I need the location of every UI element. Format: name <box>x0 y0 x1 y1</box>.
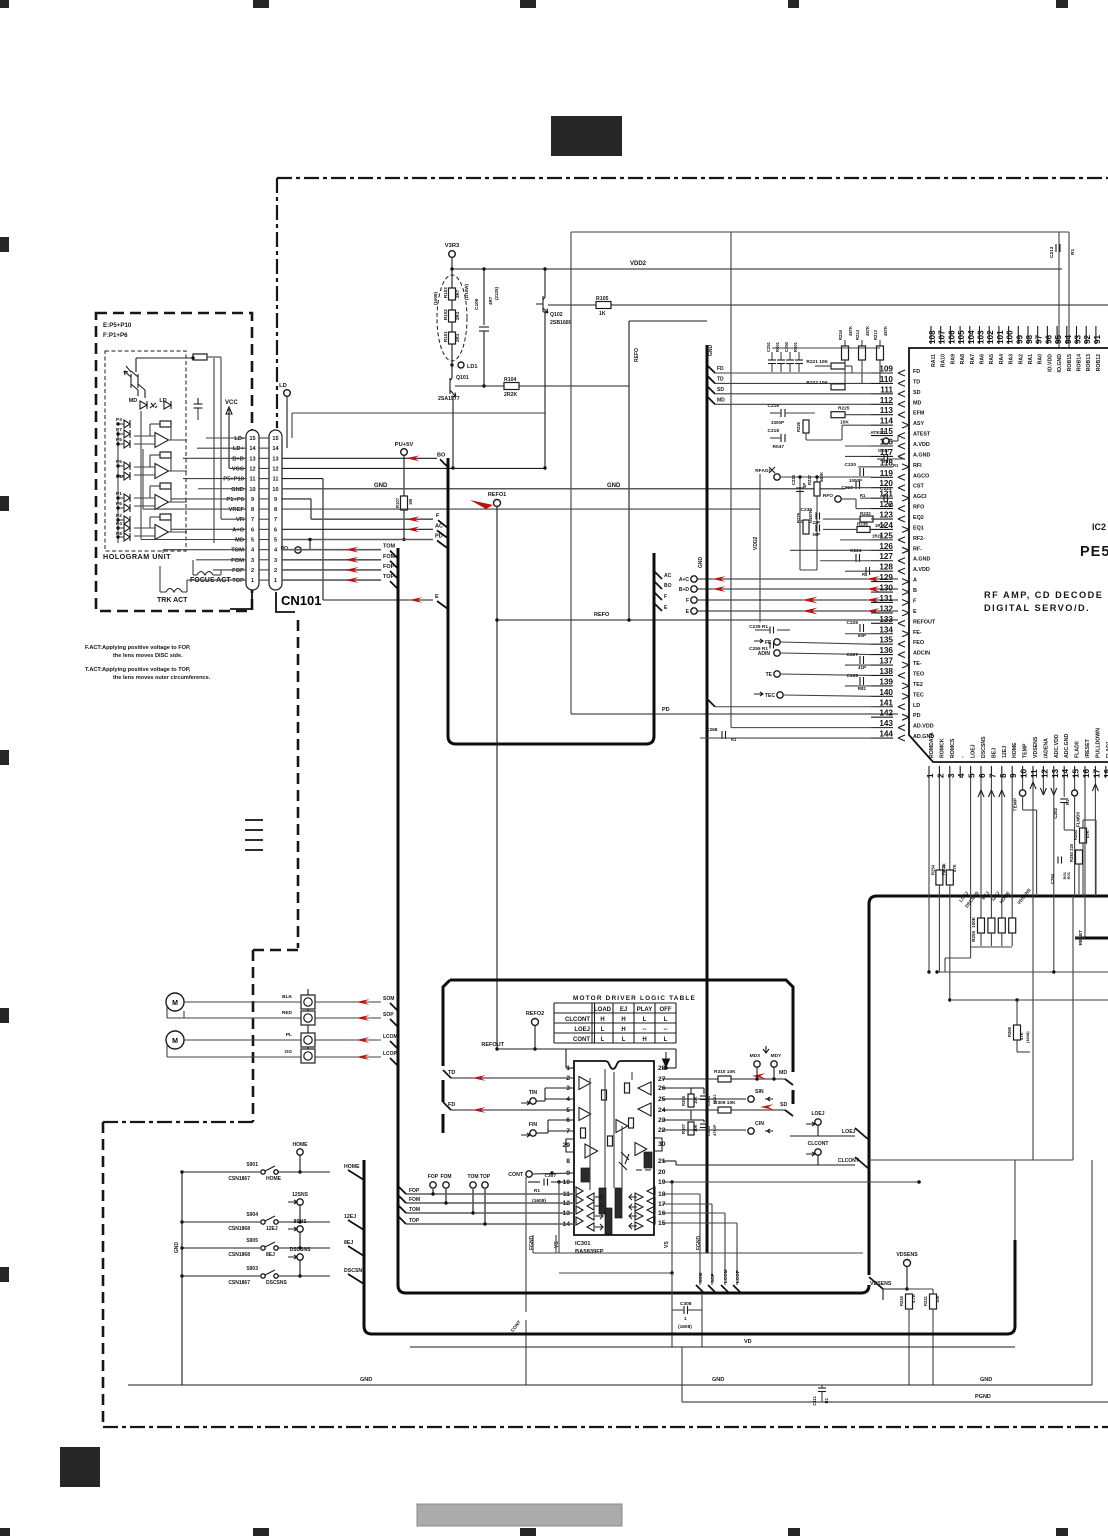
svg-text:R202: R202 <box>941 864 946 875</box>
svg-text:FOM: FOM <box>409 1197 420 1203</box>
svg-text:A.GND: A.GND <box>913 557 930 563</box>
svg-text:RA6: RA6 <box>980 354 986 364</box>
svg-text:R1: R1 <box>824 1397 829 1403</box>
svg-text:(1/10W): (1/10W) <box>464 283 469 300</box>
svg-text:P6: P6 <box>116 501 122 507</box>
svg-text:2R4: 2R4 <box>455 311 460 320</box>
svg-text:FGND: FGND <box>696 1235 702 1250</box>
svg-text:R240: R240 <box>899 1295 904 1306</box>
svg-text:4R7: 4R7 <box>488 296 493 305</box>
svg-text:CLCONT: CLCONT <box>838 1158 859 1164</box>
svg-text:RA3: RA3 <box>1009 354 1015 364</box>
svg-text:3: 3 <box>251 558 254 564</box>
svg-text:RA0: RA0 <box>1038 354 1044 364</box>
svg-text:H: H <box>642 1037 646 1043</box>
svg-text:2SA1577: 2SA1577 <box>438 396 460 402</box>
svg-text:TE-: TE- <box>913 661 922 667</box>
svg-text:113: 113 <box>880 406 894 415</box>
svg-text:7: 7 <box>251 517 254 523</box>
svg-text:R255: R255 <box>971 931 976 942</box>
svg-text:12: 12 <box>1040 768 1049 778</box>
svg-text:SD: SD <box>717 387 724 393</box>
svg-text:C225: C225 <box>791 474 796 485</box>
svg-text:-: - <box>960 756 966 758</box>
svg-text:130: 130 <box>879 584 893 593</box>
svg-text:BA5839FP: BA5839FP <box>575 1249 604 1255</box>
svg-text:RF2-: RF2- <box>913 536 925 542</box>
svg-text:C213: C213 <box>1049 246 1055 258</box>
svg-text:R305: R305 <box>681 1095 686 1106</box>
svg-text:47K: 47K <box>1085 830 1090 838</box>
svg-text:142: 142 <box>879 709 893 718</box>
svg-text:MD: MD <box>913 400 921 406</box>
svg-text:1K: 1K <box>599 311 606 317</box>
svg-text:139: 139 <box>879 677 893 686</box>
svg-text:1: 1 <box>251 578 254 584</box>
svg-text:B: B <box>913 588 917 594</box>
svg-text:R226: R226 <box>796 421 801 432</box>
svg-text:13: 13 <box>249 456 255 462</box>
svg-text:PD: PD <box>913 713 921 719</box>
svg-text:2: 2 <box>251 568 254 574</box>
svg-text:DSCSNS: DSCSNS <box>981 736 987 758</box>
svg-text:P10: P10 <box>116 474 125 480</box>
svg-text:SIN: SIN <box>755 1089 764 1095</box>
svg-text:111: 111 <box>880 385 893 394</box>
svg-text:ADIN: ADIN <box>758 651 771 657</box>
svg-text:SOP: SOP <box>383 1012 394 1018</box>
svg-text:VDSENS: VDSENS <box>896 1252 918 1258</box>
svg-text:P5: P5 <box>116 437 122 443</box>
svg-text:MDY: MDY <box>771 1053 782 1059</box>
svg-text:103: 103 <box>977 330 986 344</box>
svg-text:AC: AC <box>435 523 443 529</box>
svg-text:A: A <box>913 578 917 584</box>
svg-text:R102: R102 <box>443 309 448 320</box>
svg-text:C250: C250 <box>784 341 789 352</box>
svg-text:C268: C268 <box>706 727 718 733</box>
svg-text:4.7K: 4.7K <box>911 1294 916 1303</box>
svg-text:ATEST: ATEST <box>913 432 931 438</box>
svg-text:A+C: A+C <box>232 527 245 533</box>
svg-text:12: 12 <box>272 466 278 472</box>
svg-text:R284 220: R284 220 <box>1069 843 1074 862</box>
svg-text:R254: R254 <box>930 864 935 875</box>
svg-text:IC2: IC2 <box>1092 522 1106 532</box>
svg-text:22P: 22P <box>813 520 821 525</box>
svg-text:95: 95 <box>1054 334 1063 344</box>
svg-text:105: 105 <box>957 330 966 344</box>
svg-text:RA7: RA7 <box>970 354 976 364</box>
svg-text:R001: R001 <box>793 341 798 352</box>
svg-text:487K: 487K <box>808 510 813 520</box>
svg-text:PD: PD <box>435 534 443 540</box>
svg-text:5: 5 <box>274 538 277 544</box>
svg-text:FE: FE <box>765 640 772 646</box>
svg-text:C304: C304 <box>706 1095 711 1106</box>
svg-text:C308: C308 <box>680 1301 692 1307</box>
svg-text:92: 92 <box>1083 334 1092 344</box>
svg-text:LD: LD <box>159 398 166 404</box>
svg-text:(2125): (2125) <box>494 286 499 300</box>
svg-text:OG: OG <box>285 1049 293 1055</box>
svg-text:4: 4 <box>957 773 966 778</box>
svg-text:VDD2: VDD2 <box>630 261 647 267</box>
svg-text:2: 2 <box>936 773 945 778</box>
svg-text:R103: R103 <box>443 287 448 298</box>
svg-text:GND: GND <box>708 345 714 357</box>
svg-text:LD: LD <box>913 703 920 709</box>
svg-text:93: 93 <box>1074 334 1083 344</box>
svg-text:FOP: FOP <box>428 1174 439 1180</box>
svg-text:C228: C228 <box>847 673 859 679</box>
svg-text:REFO2: REFO2 <box>526 1011 544 1017</box>
svg-text:RFI: RFI <box>913 463 922 469</box>
svg-text:60P: 60P <box>858 633 866 638</box>
svg-text:487K: 487K <box>883 326 888 336</box>
svg-text:8SNS: 8SNS <box>293 1219 307 1225</box>
svg-text:12: 12 <box>249 466 255 472</box>
svg-text:118: 118 <box>880 458 894 467</box>
svg-text:TRK ACT: TRK ACT <box>157 597 188 604</box>
svg-text:134: 134 <box>879 625 893 634</box>
svg-text:V3R3: V3R3 <box>445 243 460 249</box>
svg-text:R265: R265 <box>1007 1026 1012 1037</box>
svg-text:2: 2 <box>274 568 277 574</box>
svg-text:TOP: TOP <box>232 578 244 584</box>
svg-text:H: H <box>621 1027 625 1033</box>
svg-text:ADC.VDD: ADC.VDD <box>1054 734 1060 758</box>
svg-text:104: 104 <box>967 330 976 344</box>
svg-text:P1: P1 <box>116 491 122 497</box>
svg-text:LCOM: LCOM <box>383 1034 398 1040</box>
svg-text:487K: 487K <box>865 326 870 336</box>
svg-text:123: 123 <box>879 511 893 520</box>
svg-text:11: 11 <box>1030 769 1039 778</box>
svg-text:HOME: HOME <box>266 1176 282 1182</box>
svg-text:5: 5 <box>251 538 254 544</box>
svg-text:CSN1867: CSN1867 <box>228 1280 250 1286</box>
svg-text:PU+5V: PU+5V <box>395 442 414 448</box>
svg-text:the lens moves outer circumfer: the lens moves outer circumference. <box>113 675 211 681</box>
svg-text:109: 109 <box>879 365 893 374</box>
svg-text:R214: R214 <box>855 329 860 340</box>
svg-text:C284: C284 <box>1050 873 1055 884</box>
svg-text:128: 128 <box>879 563 893 572</box>
svg-text:(1608): (1608) <box>1025 1031 1030 1043</box>
svg-text:R81: R81 <box>858 686 867 691</box>
svg-text:1: 1 <box>926 773 935 778</box>
svg-text:9: 9 <box>251 497 254 503</box>
svg-text:CST: CST <box>913 484 924 490</box>
svg-text:R1: R1 <box>888 502 894 507</box>
svg-text:FE-: FE- <box>913 630 922 636</box>
svg-text:MD: MD <box>779 1070 787 1076</box>
svg-text:REFOUT: REFOUT <box>913 619 936 625</box>
svg-text:6: 6 <box>274 527 277 533</box>
svg-text:L: L <box>601 1037 605 1043</box>
svg-text:AC: AC <box>664 573 672 579</box>
svg-text:FD: FD <box>717 366 724 372</box>
svg-text:CLCONT: CLCONT <box>565 1017 590 1023</box>
svg-text:RA4: RA4 <box>999 354 1005 364</box>
svg-text:(1608): (1608) <box>678 1324 692 1330</box>
svg-text:R221 10K: R221 10K <box>806 359 828 365</box>
svg-text:FLMD0: FLMD0 <box>1076 812 1081 827</box>
svg-text:AGCO: AGCO <box>913 473 929 479</box>
svg-text:IC301: IC301 <box>575 1241 591 1247</box>
svg-text:10: 10 <box>1020 768 1029 778</box>
svg-text:12EJ: 12EJ <box>266 1226 278 1232</box>
svg-text:LCOP: LCOP <box>383 1051 398 1057</box>
svg-text:TEC: TEC <box>913 692 924 698</box>
svg-text:VD: VD <box>744 1339 752 1345</box>
svg-text:108: 108 <box>928 330 937 344</box>
svg-text:DIGITAL SERVO/D.: DIGITAL SERVO/D. <box>984 603 1090 613</box>
svg-text:DSCSNS: DSCSNS <box>266 1280 288 1286</box>
svg-text:GND: GND <box>607 483 621 489</box>
svg-text:101: 101 <box>996 330 1005 344</box>
svg-text:11: 11 <box>250 477 256 483</box>
svg-text:R1: R1 <box>731 737 737 742</box>
svg-text:138: 138 <box>879 667 893 676</box>
svg-text:FGND: FGND <box>529 1235 535 1250</box>
svg-text:127: 127 <box>879 552 893 561</box>
svg-text:R001: R001 <box>775 341 780 352</box>
svg-text:BO: BO <box>437 452 446 458</box>
svg-text:R310 10K: R310 10K <box>714 1069 736 1075</box>
svg-text:8: 8 <box>251 507 254 513</box>
svg-text:A.VDD: A.VDD <box>913 567 930 573</box>
svg-text:41P: 41P <box>858 665 866 670</box>
svg-text:6: 6 <box>251 527 254 533</box>
svg-text:C216: C216 <box>768 403 780 409</box>
svg-text:R1: R1 <box>860 493 866 498</box>
svg-text:FOM: FOM <box>440 1174 451 1180</box>
svg-text:131: 131 <box>879 594 893 603</box>
svg-text:16: 16 <box>1082 768 1091 778</box>
svg-text:91: 91 <box>1093 334 1102 344</box>
svg-text:TE: TE <box>766 672 773 678</box>
svg-text:BO: BO <box>664 583 672 589</box>
svg-text:EQ2: EQ2 <box>913 515 924 521</box>
svg-text:C220: C220 <box>845 462 857 468</box>
svg-text:141: 141 <box>879 698 893 707</box>
svg-text:C106: C106 <box>474 298 480 310</box>
svg-text:9: 9 <box>274 497 277 503</box>
svg-text:ROB14: ROB14 <box>1077 354 1083 371</box>
svg-text:560K: 560K <box>819 472 824 482</box>
svg-text:BLK: BLK <box>282 994 292 1000</box>
svg-text:13: 13 <box>1051 768 1060 778</box>
svg-text:RF AMP, CD DECODE: RF AMP, CD DECODE <box>984 590 1103 600</box>
svg-text:13: 13 <box>272 456 278 462</box>
svg-text:P7: P7 <box>116 427 122 433</box>
svg-text:R105: R105 <box>596 296 609 302</box>
svg-text:PGND: PGND <box>975 1394 991 1400</box>
svg-text:20: 20 <box>658 1169 666 1176</box>
svg-text:RA8: RA8 <box>960 354 966 364</box>
svg-text:VCC: VCC <box>225 400 238 406</box>
svg-text:H: H <box>621 1017 625 1023</box>
svg-text:L: L <box>664 1037 668 1043</box>
svg-text:56P: 56P <box>813 532 821 537</box>
svg-text:HOME: HOME <box>344 1164 360 1170</box>
svg-text:14: 14 <box>1061 768 1070 778</box>
svg-text:FOM: FOM <box>383 554 396 560</box>
svg-text:S904: S904 <box>246 1212 258 1218</box>
svg-text:102: 102 <box>986 330 995 344</box>
svg-text:TEO: TEO <box>913 671 924 677</box>
svg-text:10K: 10K <box>935 1295 940 1303</box>
svg-text:LOAD: LOAD <box>594 1007 612 1013</box>
svg-text:ADC.GND: ADC.GND <box>1064 734 1070 758</box>
svg-text:--: -- <box>643 1027 647 1033</box>
svg-text:8EJ: 8EJ <box>266 1252 275 1258</box>
svg-text:MD: MD <box>717 397 725 403</box>
svg-text:LCOP: LCOP <box>735 1270 740 1283</box>
svg-text:AGCI: AGCI <box>913 494 927 500</box>
svg-text:S905: S905 <box>246 1238 258 1244</box>
svg-text:--: -- <box>664 1027 668 1033</box>
svg-text:P1+P6: P1+P6 <box>226 497 244 503</box>
svg-text:110: 110 <box>880 375 894 384</box>
svg-text:RF-: RF- <box>913 546 922 552</box>
svg-text:REFO: REFO <box>594 612 610 618</box>
svg-text:P5: P5 <box>116 459 122 465</box>
svg-text:PE55: PE55 <box>1080 544 1108 560</box>
svg-text:C111: C111 <box>812 1395 817 1405</box>
svg-text:TOP: TOP <box>409 1218 420 1224</box>
svg-text:9: 9 <box>1009 773 1018 778</box>
svg-text:R1: R1 <box>1065 799 1070 805</box>
svg-text:126: 126 <box>879 542 893 551</box>
svg-text:FD: FD <box>913 369 920 375</box>
svg-text:R1: R1 <box>893 463 899 468</box>
svg-text:ROB13: ROB13 <box>1086 354 1092 371</box>
svg-text:FOM: FOM <box>231 558 244 564</box>
svg-text:LOEJ: LOEJ <box>971 744 977 758</box>
svg-text:L: L <box>601 1027 605 1033</box>
svg-text:R253: R253 <box>1073 829 1078 840</box>
svg-text:IO.GND: IO.GND <box>1057 354 1063 373</box>
svg-text:LCOM: LCOM <box>723 1269 728 1283</box>
svg-text:L: L <box>664 1017 668 1023</box>
svg-text:RED: RED <box>282 1010 293 1016</box>
svg-text:P5+P10: P5+P10 <box>223 477 244 483</box>
svg-text:487K: 487K <box>848 326 853 336</box>
svg-text:140: 140 <box>879 688 893 697</box>
svg-text:GND: GND <box>231 487 244 493</box>
svg-text:TOM: TOM <box>467 1174 478 1180</box>
svg-text:137: 137 <box>879 657 893 666</box>
svg-text:the lens moves DISC side.: the lens moves DISC side. <box>113 653 183 659</box>
svg-text:CONT: CONT <box>508 1172 524 1178</box>
svg-text:96: 96 <box>1044 334 1053 344</box>
svg-text:PD: PD <box>662 707 670 713</box>
svg-text:(1608): (1608) <box>433 291 438 305</box>
svg-text:1: 1 <box>684 1316 687 1322</box>
svg-text:TD: TD <box>717 376 724 382</box>
svg-text:8EJ: 8EJ <box>344 1240 353 1246</box>
svg-text:2R4: 2R4 <box>455 333 460 342</box>
svg-text:2R2K: 2R2K <box>504 392 518 398</box>
svg-text:GND: GND <box>374 483 388 489</box>
svg-text:47K: 47K <box>952 864 957 872</box>
svg-text:C307: C307 <box>545 1173 557 1179</box>
svg-text:RA2: RA2 <box>1018 354 1024 364</box>
svg-text:VREF: VREF <box>229 507 245 513</box>
svg-text:R229: R229 <box>796 512 801 523</box>
svg-text:TEMP: TEMP <box>1023 743 1029 758</box>
svg-text:8: 8 <box>274 507 277 513</box>
svg-text:P8: P8 <box>116 531 122 537</box>
svg-text:GND: GND <box>360 1377 372 1383</box>
svg-text:10K: 10K <box>693 1096 698 1104</box>
svg-text:RA9: RA9 <box>950 354 956 364</box>
svg-text:R1: R1 <box>534 1188 540 1194</box>
svg-text:ROB12: ROB12 <box>1096 354 1102 371</box>
svg-text:1R2K: 1R2K <box>875 523 886 528</box>
svg-text:E: E <box>913 609 917 615</box>
svg-text:15: 15 <box>249 436 255 442</box>
svg-text:10: 10 <box>272 487 278 493</box>
svg-text:MD: MD <box>235 538 244 544</box>
svg-text:RFAGC: RFAGC <box>755 468 772 474</box>
svg-text:R107: R107 <box>395 497 400 508</box>
svg-text:F.ACT:Applying positive voltag: F.ACT:Applying positive voltage to FOP, <box>85 645 191 651</box>
svg-text:C217: C217 <box>878 448 890 454</box>
svg-text:R01: R01 <box>1066 871 1071 879</box>
svg-text:M: M <box>172 1000 178 1007</box>
svg-text:114: 114 <box>880 417 894 426</box>
svg-text:ADCIN: ADCIN <box>913 651 930 657</box>
svg-text:FIN: FIN <box>529 1122 538 1128</box>
svg-text:TIN: TIN <box>529 1090 538 1096</box>
svg-text:C202: C202 <box>1053 808 1058 819</box>
svg-text:R232: R232 <box>860 511 871 516</box>
svg-text:BEJ: BEJ <box>991 748 997 758</box>
svg-text:144: 144 <box>879 730 893 739</box>
svg-text:RA5: RA5 <box>989 354 995 364</box>
svg-text:FLAD0: FLAD0 <box>1075 741 1081 758</box>
svg-text:CSN1868: CSN1868 <box>228 1252 250 1258</box>
svg-text:136: 136 <box>879 646 893 655</box>
svg-text:TOM: TOM <box>231 548 244 554</box>
svg-text:VCC: VCC <box>232 466 245 472</box>
svg-text:129: 129 <box>879 573 893 582</box>
svg-text:TEMP: TEMP <box>1013 797 1019 811</box>
svg-text:HOME: HOME <box>1012 742 1018 758</box>
svg-text:GND: GND <box>174 1242 180 1254</box>
svg-text:C227: C227 <box>847 652 859 658</box>
svg-text:1: 1 <box>274 578 277 584</box>
svg-text:CONT: CONT <box>573 1037 590 1043</box>
svg-text:CLCONT: CLCONT <box>808 1141 829 1147</box>
svg-text:SOM: SOM <box>698 1272 703 1283</box>
svg-text:REFOUT: REFOUT <box>481 1042 504 1048</box>
svg-text:L: L <box>643 1017 647 1023</box>
svg-text:P2: P2 <box>116 513 122 519</box>
svg-text:ROMDATA: ROMDATA <box>929 732 935 758</box>
svg-text:R307: R307 <box>681 1123 686 1134</box>
svg-text:97: 97 <box>1035 334 1044 344</box>
svg-text:47K: 47K <box>1019 1032 1024 1040</box>
svg-text:98: 98 <box>1025 334 1034 344</box>
svg-text:12EJ: 12EJ <box>1002 746 1008 758</box>
svg-text:FOP: FOP <box>232 568 244 574</box>
svg-text:VDD2: VDD2 <box>753 536 759 550</box>
